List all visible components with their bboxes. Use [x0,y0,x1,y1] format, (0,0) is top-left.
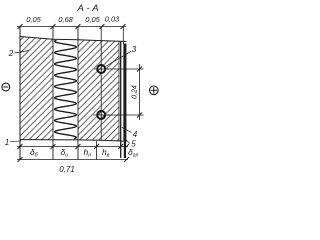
svg-text:0,03: 0,03 [105,14,120,23]
svg-text:0,68: 0,68 [58,15,73,24]
svg-text:0,71: 0,71 [59,165,75,174]
svg-text:А - А: А - А [76,3,98,14]
svg-text:0,05: 0,05 [26,15,41,24]
svg-text:4: 4 [133,130,138,139]
svg-text:1: 1 [5,138,9,147]
svg-text:2: 2 [8,49,14,58]
svg-text:3: 3 [132,45,137,54]
svg-text:0,24: 0,24 [132,85,139,99]
svg-text:0,05: 0,05 [85,15,100,24]
